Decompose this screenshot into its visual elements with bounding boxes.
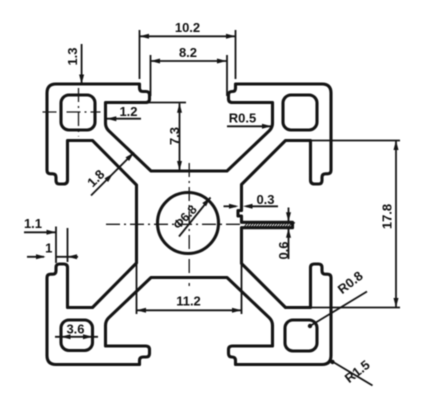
svg-text:10.2: 10.2 bbox=[175, 20, 200, 35]
center hole Φ6.8 bbox=[158, 193, 219, 254]
corner hole BL bbox=[61, 320, 93, 351]
corner hole TR bbox=[283, 95, 317, 130]
centerline horizontal bbox=[106, 223, 244, 225]
svg-text:1.3: 1.3 bbox=[65, 47, 80, 65]
svg-text:17.8: 17.8 bbox=[380, 204, 395, 229]
corner hole BR bbox=[285, 320, 317, 351]
svg-text:R0.5: R0.5 bbox=[229, 111, 256, 126]
svg-text:1.1: 1.1 bbox=[24, 216, 42, 231]
svg-text:11.2: 11.2 bbox=[176, 294, 201, 309]
svg-text:8.2: 8.2 bbox=[179, 45, 197, 60]
svg-text:1: 1 bbox=[45, 241, 52, 256]
corner hole TL bbox=[61, 95, 95, 130]
centerline vertical bbox=[188, 163, 190, 286]
svg-text:1.2: 1.2 bbox=[119, 104, 137, 119]
profile outline: 2020 aluminium extrusion cross-section bbox=[47, 84, 331, 365]
hole TL centerlines bbox=[43, 111, 101, 113]
svg-text:0.3: 0.3 bbox=[256, 192, 274, 207]
fin hatch bbox=[244, 222, 295, 227]
svg-text:3.6: 3.6 bbox=[66, 322, 84, 337]
